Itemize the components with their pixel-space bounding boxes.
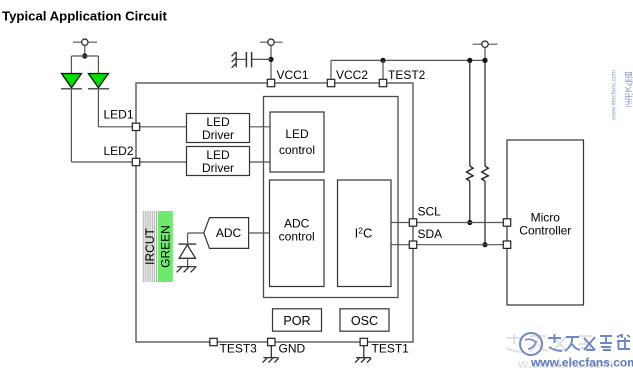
junction dot VCC1 branch: [268, 57, 273, 62]
LED Driver block 2: [187, 147, 250, 176]
svg-text:Controller: Controller: [519, 223, 571, 237]
wire SCL bus: [417, 222, 503, 224]
pin MC SCL: [503, 219, 510, 226]
Micro Controller block: [507, 140, 584, 305]
pin TEST1: [360, 338, 367, 345]
svg-text:GND: GND: [279, 342, 306, 356]
svg-text:LED2: LED2: [103, 144, 133, 158]
svg-text:www.elecfans.com: www.elecfans.com: [530, 356, 633, 370]
wire capacitor to VCC1 rail: [252, 58, 271, 60]
resistor R2 (SDA pull-up): [482, 60, 489, 244]
svg-text:ADC: ADC: [216, 226, 242, 240]
wire D2 cathode to LED1 pin: [98, 89, 132, 127]
wire SDA bus: [417, 244, 503, 246]
junction dot TEST2 rail: [380, 58, 385, 63]
svg-text:www.elecfans.com: www.elecfans.com: [612, 70, 618, 121]
watermark bottom right site name: [548, 334, 630, 351]
wire I2C to SCL pin: [391, 222, 409, 224]
capacitor C1: [246, 52, 251, 67]
junction dot SCL/R1: [467, 220, 472, 225]
OSC block: [340, 309, 389, 331]
svg-text:I2C: I2C: [355, 226, 373, 241]
ADC converter block: [204, 218, 249, 249]
svg-text:SCL: SCL: [418, 205, 442, 219]
wire VCC2 riser: [330, 60, 332, 79]
junction dot R1 rail: [467, 58, 472, 63]
wire photodiode cathode to ADC node: [188, 233, 204, 244]
wire I2C to SDA pin: [391, 244, 409, 246]
svg-text:VCC1: VCC1: [277, 68, 309, 82]
svg-text:LED: LED: [285, 127, 309, 141]
svg-text:TEST3: TEST3: [220, 342, 258, 356]
wire LED1 pin to driver 1: [136, 126, 187, 128]
svg-text:VCC2: VCC2: [336, 68, 368, 82]
ADC control block: [270, 180, 325, 287]
svg-text:POR: POR: [283, 314, 310, 328]
pin SDA: [409, 241, 416, 248]
watermark top right (site mark, vertical): [625, 72, 633, 106]
supply symbol VDD (VCC1): [260, 39, 283, 79]
pin SCL: [409, 219, 416, 226]
svg-text:control: control: [279, 230, 315, 244]
power rail wire VCC2/TEST2: [331, 59, 485, 61]
watermark bottom right emboss: [506, 334, 592, 352]
svg-text:ADC: ADC: [284, 217, 310, 231]
IRCUT filter strip: [143, 211, 158, 282]
watermark bottom right logo: [520, 333, 542, 355]
LED Driver block 1: [187, 114, 250, 143]
ground (chassis) at C1: [232, 52, 237, 68]
svg-text:LED: LED: [206, 115, 230, 129]
pin LED1: [132, 123, 139, 130]
svg-text:LED1: LED1: [103, 108, 133, 122]
pin TEST3: [210, 338, 217, 345]
wire LED supply split: [71, 56, 98, 74]
wire driver 1 to LED control: [250, 126, 271, 128]
I2C block: [338, 180, 392, 287]
LED control block: [270, 112, 324, 172]
wire LED2 pin to driver 2: [136, 161, 187, 163]
svg-text:SDA: SDA: [418, 227, 443, 241]
inner control block outline: [264, 97, 399, 298]
wire driver 2 to LED control: [250, 161, 271, 163]
pin VCC1: [267, 79, 274, 86]
svg-text:control: control: [279, 143, 315, 157]
pin GND: [268, 338, 275, 345]
pin LED2: [132, 158, 139, 165]
svg-text:OSC: OSC: [351, 314, 378, 328]
junction dot LED supply: [82, 53, 87, 58]
POR block: [273, 309, 322, 331]
svg-text:Driver: Driver: [202, 161, 234, 175]
svg-text:Driver: Driver: [202, 128, 234, 142]
svg-text:Micro: Micro: [531, 210, 561, 224]
GREEN filter strip: [158, 211, 173, 282]
junction dot R2 rail: [482, 58, 487, 63]
wire ADC to ADC control: [249, 232, 270, 234]
pin VCC2: [327, 79, 334, 86]
svg-text:TEST1: TEST1: [372, 342, 410, 356]
svg-text:IRCUT: IRCUT: [143, 228, 157, 265]
wire photodiode anode to ground: [187, 258, 189, 266]
chip outline U1: [136, 83, 413, 342]
svg-text:LED: LED: [206, 148, 230, 162]
supply symbol VDD (LED side): [73, 39, 97, 56]
svg-text:TEST2: TEST2: [388, 68, 426, 82]
wire capacitor to ground: [236, 58, 246, 60]
LED D2: [88, 74, 109, 89]
ground (chassis) at TEST1 pin: [355, 346, 371, 363]
ground (chassis) at photodiode: [177, 267, 197, 273]
ground (chassis) at GND pin: [263, 346, 279, 363]
resistor R1 (SCL pull-up): [467, 60, 474, 222]
svg-text:Typical Application Circuit: Typical Application Circuit: [2, 9, 167, 24]
wire TEST2 riser: [382, 60, 384, 79]
junction dot SDA/R2: [482, 242, 487, 247]
svg-text:GREEN: GREEN: [158, 225, 172, 268]
photodiode D3: [178, 244, 196, 258]
supply symbol VDD (pull-ups): [473, 41, 498, 60]
LED D1: [61, 74, 82, 89]
pin TEST2: [379, 79, 386, 86]
wire D1 cathode to LED2 pin: [71, 89, 132, 162]
pin MC SDA: [503, 241, 510, 248]
